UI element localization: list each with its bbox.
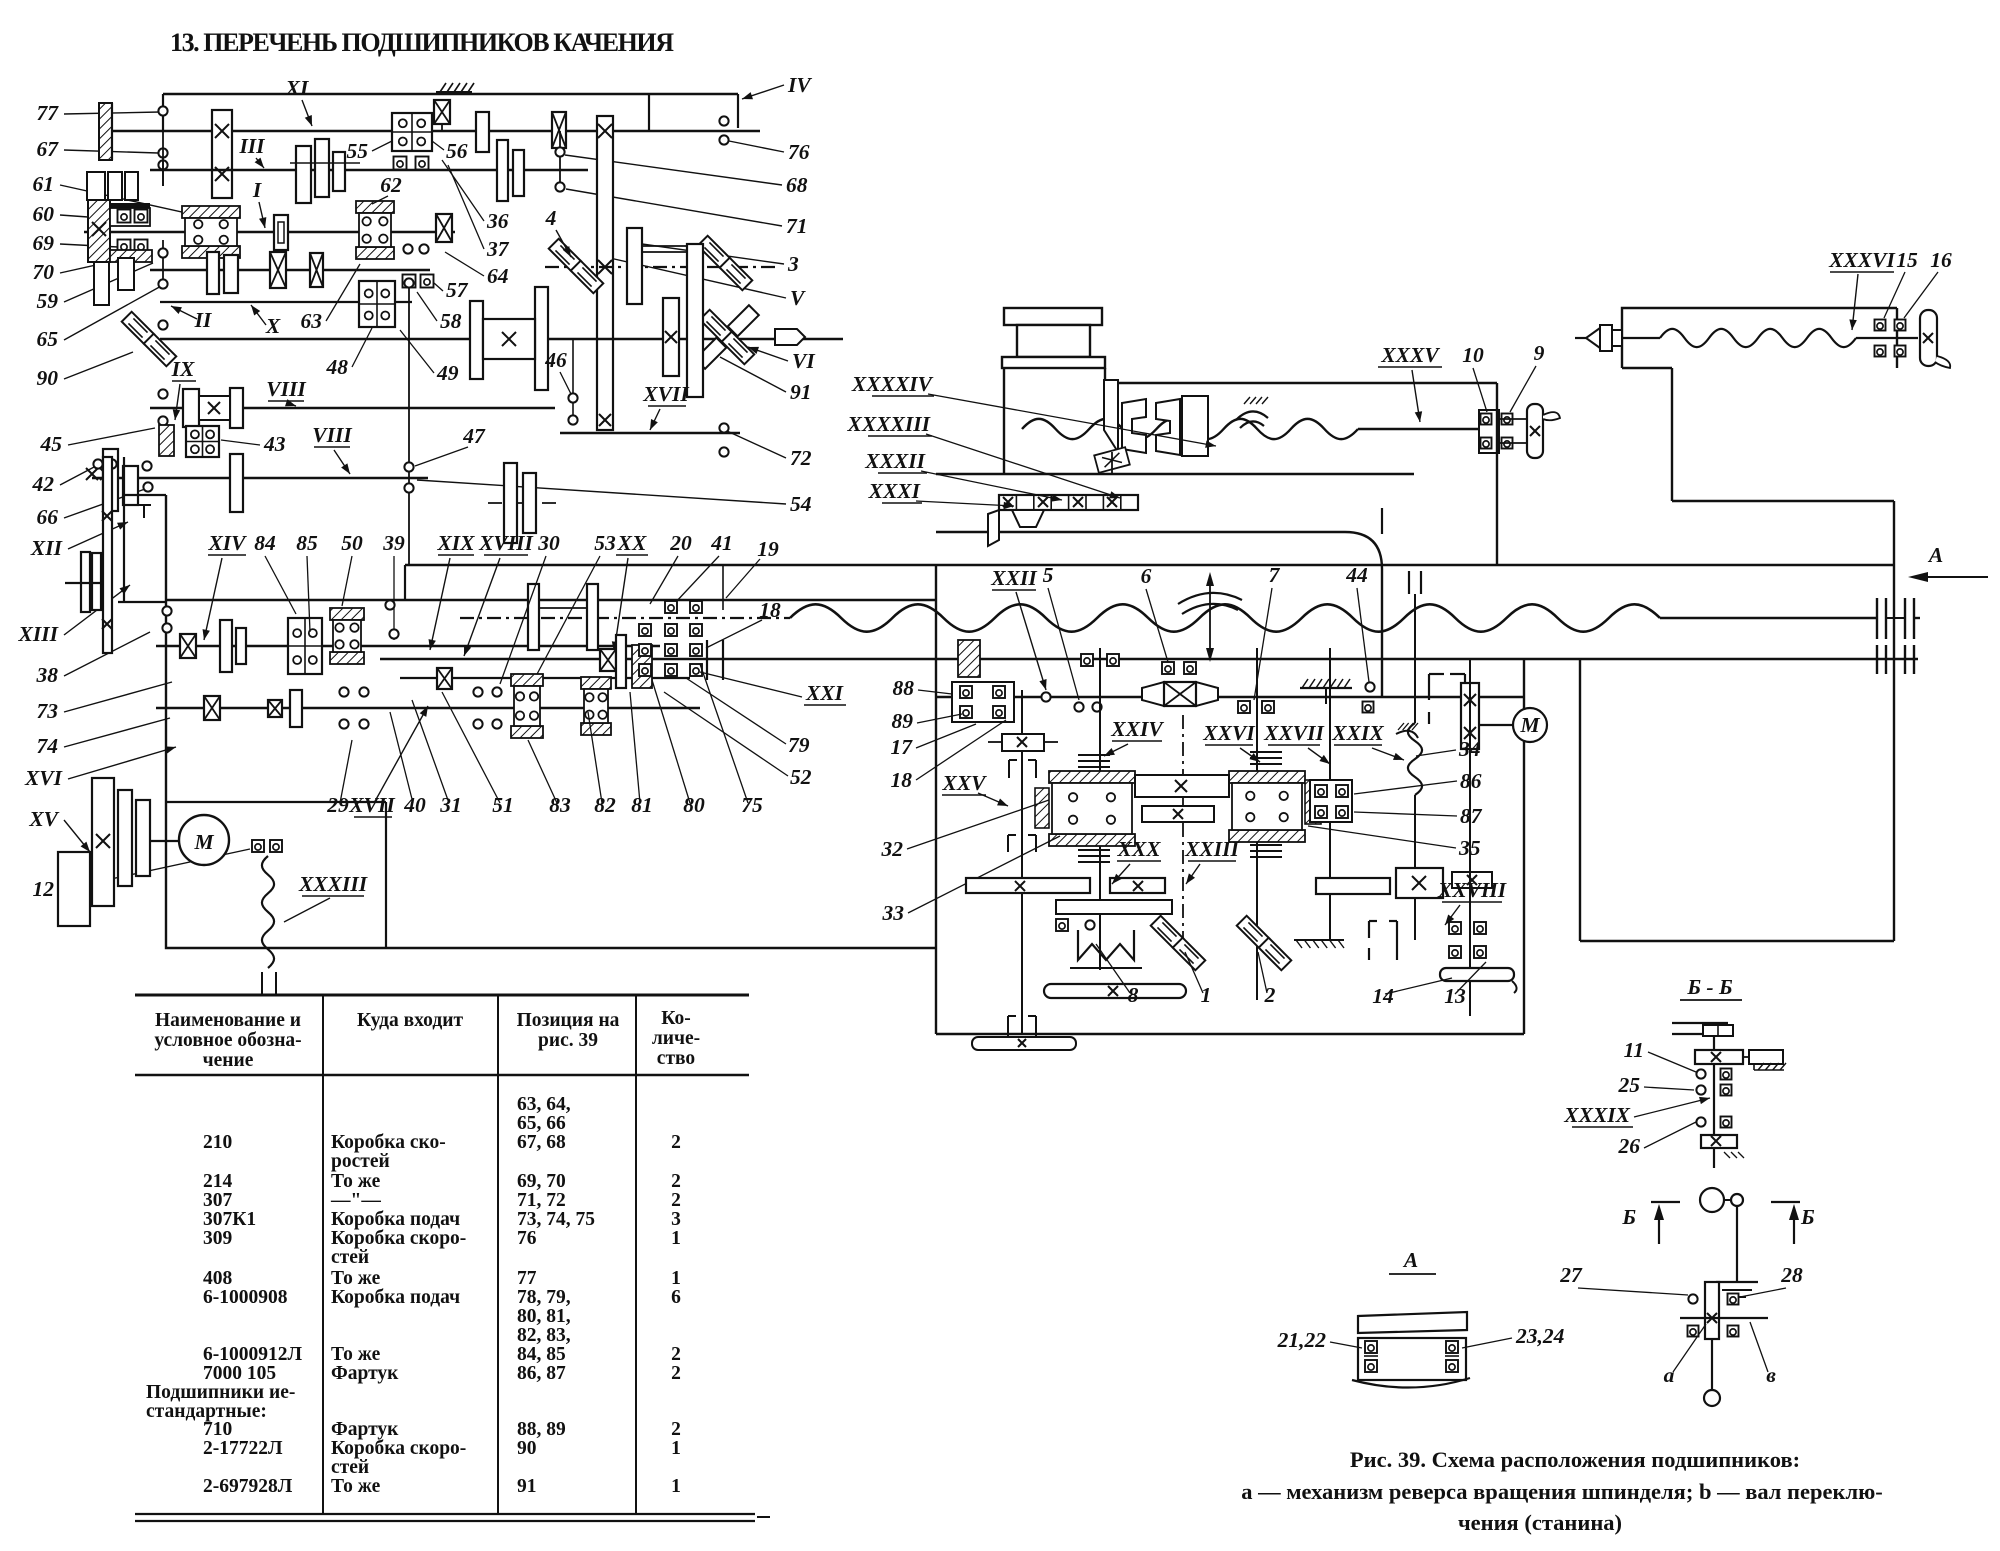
support drop on IV (648, 94, 650, 131)
svg-text:2: 2 (671, 1190, 681, 1211)
svg-text:49: 49 (436, 361, 459, 385)
svg-text:81: 81 (631, 793, 653, 817)
svg-text:72: 72 (790, 446, 812, 470)
gears on XI right (476, 112, 489, 152)
svg-text:73: 73 (37, 699, 59, 723)
svg-text:40: 40 (403, 793, 426, 817)
svg-text:Коробка подач: Коробка подач (331, 1209, 460, 1230)
svg-text:стей: стей (331, 1457, 369, 1478)
svg-text:То же: То же (331, 1268, 381, 1289)
dash section I (300, 231, 332, 233)
universal joint on V right (698, 236, 731, 269)
gear on VI (663, 298, 679, 376)
svg-text:75: 75 (741, 793, 763, 817)
svg-text:XXI: XXI (805, 681, 844, 705)
motor pulley block (92, 778, 114, 906)
svg-text:78, 79,: 78, 79, (517, 1287, 571, 1308)
svg-text:73, 74, 75: 73, 74, 75 (517, 1209, 595, 1230)
svg-text:63: 63 (301, 309, 323, 333)
table vertical 2 (497, 995, 499, 1514)
svg-text:XXIV: XXIV (1110, 717, 1164, 741)
sleeve between clusters (1135, 775, 1229, 797)
ground symbol lever (1716, 1281, 1758, 1283)
bearings 57-58 pair (403, 244, 412, 253)
svg-text:Коробка скоро-: Коробка скоро- (331, 1228, 466, 1249)
table vertical 1 (322, 995, 324, 1514)
svg-text:45: 45 (40, 432, 63, 456)
XIII gear pair (81, 552, 90, 612)
svg-text:51: 51 (492, 793, 514, 817)
leadscrew coupling (1876, 598, 1878, 639)
feed rod coupling (1876, 645, 1878, 674)
svg-text:Ко-: Ко- (661, 1008, 690, 1029)
svg-text:80: 80 (683, 793, 705, 817)
svg-text:X: X (265, 314, 281, 338)
svg-text:91: 91 (517, 1476, 537, 1497)
table bottom border (135, 1513, 755, 1515)
line above X shaft (160, 301, 412, 303)
motor M2 (1513, 708, 1547, 742)
apron 88-89 bearing unit (958, 640, 980, 677)
svg-text:25: 25 (1618, 1073, 1641, 1097)
svg-text:4: 4 (545, 206, 557, 230)
svg-text:M: M (193, 830, 214, 854)
svg-text:XXVI: XXVI (1202, 721, 1255, 745)
svg-text:Фартук: Фартук (331, 1419, 399, 1440)
universal joint on V left (549, 239, 582, 272)
X-box motor drive (1461, 683, 1479, 749)
svg-text:2: 2 (671, 1419, 681, 1440)
rack bar right (1316, 878, 1390, 894)
X-coupling gears on X (470, 301, 483, 379)
svg-text:69, 70: 69, 70 (517, 1171, 566, 1192)
bearing X-box on XI right (552, 112, 566, 148)
svg-text:VIII: VIII (266, 377, 306, 401)
saddle right edge (1496, 383, 1498, 565)
A top bar (1358, 1312, 1467, 1333)
svg-text:46: 46 (544, 348, 567, 372)
svg-text:408: 408 (203, 1268, 233, 1289)
svg-text:XIII: XIII (18, 622, 59, 646)
svg-text:36: 36 (486, 209, 509, 233)
bearings 45 (158, 389, 167, 398)
svg-text:XXXXIII: XXXXIII (847, 412, 931, 436)
svg-text:12: 12 (33, 877, 55, 901)
bed top line (405, 564, 1894, 567)
vertical shaft XIII rect (103, 457, 112, 653)
headstock gear pack (87, 172, 105, 200)
vertical x405 corner (404, 565, 406, 600)
svg-text:Коробка ско-: Коробка ско- (331, 1132, 446, 1153)
feedbox top line (166, 599, 936, 601)
vertical link x409 (408, 287, 410, 565)
svg-text:56: 56 (446, 139, 468, 163)
svg-text:XXIX: XXIX (1331, 721, 1384, 745)
svg-text:89: 89 (892, 709, 914, 733)
svg-text:55: 55 (347, 139, 369, 163)
svg-text:—"—: —"— (330, 1190, 381, 1211)
vertical shaft XXVI (1256, 648, 1258, 1000)
X-box bottom right (1396, 868, 1443, 898)
svg-text:XXVII: XXVII (1263, 721, 1324, 745)
table vertical 3 (635, 995, 637, 1514)
svg-text:То же: То же (331, 1344, 381, 1365)
bearing block on XI-III (212, 110, 232, 198)
spring curl 34 (1396, 731, 1418, 738)
svg-text:A: A (1927, 543, 1943, 567)
svg-text:XXXIII: XXXIII (298, 872, 368, 896)
svg-text:28: 28 (1780, 1263, 1803, 1287)
leadscrew wavy (790, 604, 1660, 631)
svg-text:III: III (238, 134, 265, 158)
bracket XXV upper (1008, 760, 1010, 778)
universal joint 2 (1237, 916, 1270, 949)
tailstock body (1622, 308, 1897, 368)
svg-text:44: 44 (1345, 563, 1368, 587)
ground hatch bottom (1294, 939, 1344, 941)
bearings on VIII lower (86, 468, 98, 480)
bearings on XXII (1074, 702, 1083, 711)
svg-text:То же: То же (331, 1171, 381, 1192)
svg-text:ростей: ростей (331, 1151, 390, 1172)
svg-text:15: 15 (1896, 248, 1918, 272)
switch lower rod (1711, 1339, 1713, 1390)
svg-text:65, 66: 65, 66 (517, 1113, 566, 1134)
svg-text:307: 307 (203, 1190, 233, 1211)
apron bottom (936, 1033, 1524, 1035)
bracket pair bottom (1368, 921, 1370, 938)
svg-text:307К1: 307К1 (203, 1209, 256, 1230)
svg-text:54: 54 (790, 492, 812, 516)
feedbox left box outline (166, 495, 936, 948)
svg-text:XXV: XXV (941, 771, 987, 795)
table continuation dash (757, 1516, 770, 1518)
apron left edge (935, 565, 937, 1034)
ground hatch on XXII (1300, 687, 1352, 689)
shaft XI (112, 130, 760, 133)
line to motor M2 (1479, 724, 1512, 726)
bearing block 62-63 on I (356, 201, 394, 213)
svg-text:7: 7 (1269, 563, 1281, 587)
hatch wall IX (159, 425, 174, 456)
bearing 4-block 55-56 (392, 113, 432, 151)
svg-text:76: 76 (517, 1228, 537, 1249)
svg-text:61: 61 (33, 172, 55, 196)
svg-text:2-17722Л: 2-17722Л (203, 1438, 283, 1459)
gear-coupling on IX (183, 389, 199, 427)
svg-text:83: 83 (549, 793, 571, 817)
svg-text:чения (станина): чения (станина) (1458, 1510, 1622, 1535)
svg-text:XXVIII: XXVIII (1437, 878, 1507, 902)
headstock hatched block (88, 200, 110, 262)
svg-text:6-1000912Л: 6-1000912Л (203, 1344, 302, 1365)
svg-text:ство: ство (657, 1048, 695, 1069)
svg-text:XVI: XVI (24, 766, 63, 790)
right bearing grid 20-41-19-18-79-52 (665, 601, 677, 613)
svg-text:67: 67 (37, 137, 60, 161)
bearings 46 column (572, 340, 574, 425)
lever rod (1736, 1206, 1738, 1282)
tailstock screw wavy (1622, 337, 1660, 339)
svg-text:17: 17 (891, 735, 914, 759)
svg-text:стей: стей (331, 1247, 369, 1268)
wall support left (99, 103, 112, 160)
shaft XVII-horizontal (560, 432, 740, 434)
svg-text:чение: чение (203, 1050, 254, 1071)
svg-text:7000 105: 7000 105 (203, 1363, 276, 1384)
svg-text:18: 18 (891, 768, 913, 792)
bearing 76 on IV (719, 116, 728, 125)
table top border (135, 994, 749, 997)
svg-text:6: 6 (671, 1287, 681, 1308)
bearings 68 71 stems (559, 131, 561, 190)
T-bar 14 (1440, 968, 1514, 981)
svg-text:1: 1 (671, 1228, 681, 1249)
bearings 42 (93, 459, 102, 468)
svg-text:8: 8 (1128, 983, 1139, 1007)
A body box (1358, 1338, 1466, 1380)
shaft spool 618 (460, 617, 790, 619)
bracket XXV mid (1007, 835, 1009, 852)
shaft V (545, 266, 780, 268)
shaft IX-VIII (150, 407, 555, 410)
vertical shaft XXV (1021, 690, 1023, 1034)
svg-text:82: 82 (594, 793, 616, 817)
bearings 72 54 on XVII (719, 423, 728, 432)
svg-text:27: 27 (1559, 1263, 1583, 1287)
svg-text:82, 83,: 82, 83, (517, 1325, 571, 1346)
svg-text:XIV: XIV (207, 531, 247, 555)
svg-text:214: 214 (203, 1171, 233, 1192)
svg-text:Позиция на: Позиция на (517, 1010, 620, 1031)
svg-text:Куда входит: Куда входит (357, 1010, 463, 1031)
svg-text:66: 66 (37, 505, 59, 529)
tailstock quill (1575, 337, 1588, 339)
A bearings 21-24 (1365, 1341, 1377, 1353)
svg-text:XXXII: XXXII (864, 449, 925, 473)
svg-text:a: a (1664, 1363, 1675, 1387)
bed right edge (1893, 501, 1895, 941)
svg-text:A: A (1402, 1248, 1418, 1272)
svg-text:1: 1 (671, 1268, 681, 1289)
switch bearings 27 28 (1688, 1294, 1697, 1303)
hatched block 50 (330, 608, 364, 620)
svg-text:То же: То же (331, 1476, 381, 1497)
B-B X-box top (1695, 1050, 1743, 1064)
bearing X-box I right (436, 214, 452, 242)
A bottom arc (1352, 1378, 1470, 1388)
big X joint on VI (700, 310, 733, 343)
gear small on I (274, 215, 288, 250)
svg-text:85: 85 (296, 531, 318, 555)
B-B side piece (1749, 1050, 1783, 1064)
svg-text:23,24: 23,24 (1515, 1324, 1565, 1348)
headstock lower rects (94, 262, 109, 305)
bearings 59 65 column (162, 240, 164, 285)
universal joint 1 (1151, 916, 1184, 949)
rotation arrows at 1210 (1209, 578, 1211, 655)
svg-text:XVII: XVII (348, 793, 395, 817)
svg-text:3: 3 (671, 1209, 681, 1230)
svg-text:76: 76 (788, 140, 810, 164)
table header separator (135, 1074, 749, 1077)
gears on II (270, 252, 286, 288)
reversing frame (123, 457, 125, 602)
svg-text:Наименование и: Наименование и (155, 1010, 301, 1031)
bearing squares 13 (1449, 922, 1461, 934)
gears on V (627, 228, 642, 304)
switch shaft b rect (1705, 1282, 1719, 1339)
bearing 77 (158, 106, 167, 115)
gears on III right (497, 140, 508, 201)
spool gears (528, 584, 539, 650)
svg-text:2: 2 (671, 1171, 681, 1192)
svg-text:XX: XX (617, 531, 647, 555)
svg-text:XXXV: XXXV (1380, 343, 1440, 367)
svg-text:Фартук: Фартук (331, 1363, 399, 1384)
svg-text:63, 64,: 63, 64, (517, 1094, 571, 1115)
bearing 44 (1365, 682, 1374, 691)
B-B shaft vertical (1713, 1036, 1715, 1135)
break marks x1410 (1408, 571, 1410, 594)
svg-text:2: 2 (671, 1363, 681, 1384)
svg-text:79: 79 (788, 733, 810, 757)
svg-text:XXXXIV: XXXXIV (851, 372, 934, 396)
svg-text:69: 69 (33, 231, 55, 255)
bearing X on XIV (180, 634, 196, 658)
svg-text:условное обозна-: условное обозна- (154, 1030, 301, 1051)
svg-text:77: 77 (37, 101, 60, 125)
svg-text:31: 31 (439, 793, 462, 817)
bearings 67 on XI (158, 148, 167, 157)
thrust strip XXXI-XXXIV (999, 495, 1138, 510)
shaft to motor (150, 840, 180, 842)
svg-text:90: 90 (517, 1438, 537, 1459)
universal joint X left (122, 312, 155, 345)
vertical shaft XXIII dashed (1182, 715, 1184, 940)
bracket pair right (1428, 674, 1430, 700)
svg-text:II: II (194, 308, 212, 332)
teeth stack right (1250, 751, 1282, 753)
svg-text:710: 710 (203, 1419, 232, 1440)
shaft I (84, 231, 455, 234)
svg-text:Б - Б: Б - Б (1686, 975, 1733, 999)
shaft VIII lower (92, 477, 428, 480)
svg-text:M: M (1519, 713, 1540, 737)
bearing 66 (143, 482, 152, 491)
svg-text:16: 16 (1930, 248, 1952, 272)
svg-text:86, 87: 86, 87 (517, 1363, 566, 1384)
ratchet arcs (1236, 411, 1268, 420)
gear tall right (687, 244, 703, 397)
svg-text:210: 210 (203, 1132, 232, 1153)
headstock bearings 60 69 (118, 210, 131, 223)
gear pair lower right (488, 502, 560, 504)
svg-text:88: 88 (893, 676, 915, 700)
svg-text:Коробка скоро-: Коробка скоро- (331, 1438, 466, 1459)
svg-text:18: 18 (759, 598, 781, 622)
bearing on X left (158, 320, 167, 329)
lever knob circles (1700, 1188, 1724, 1212)
rack bar mid (1110, 878, 1165, 893)
svg-text:41: 41 (710, 531, 733, 555)
svg-text:48: 48 (326, 355, 349, 379)
gear cluster left (32/33) (1049, 771, 1135, 783)
svg-text:XVII: XVII (642, 382, 689, 406)
clutch block on I (182, 206, 240, 218)
svg-text:Рис. 39. Схема расположения по: Рис. 39. Схема расположения подшипников: (1350, 1447, 1800, 1472)
svg-text:Б: Б (1800, 1205, 1815, 1229)
svg-text:XXXI: XXXI (868, 479, 921, 503)
svg-text:VIII: VIII (312, 423, 352, 447)
svg-text:62: 62 (380, 173, 402, 197)
svg-text:XVIII: XVIII (478, 531, 533, 555)
worm X-box on XXII (1142, 682, 1164, 706)
shaft XIV (156, 645, 660, 648)
saddle top line (1105, 382, 1497, 384)
apron main shaft XXII (936, 696, 1524, 698)
svg-text:6-1000908: 6-1000908 (203, 1287, 288, 1308)
shaft IV (163, 93, 738, 96)
svg-text:1: 1 (1201, 983, 1212, 1007)
saddle inner line 474 (936, 473, 1414, 475)
svg-text:33: 33 (882, 901, 905, 925)
right big box (1579, 658, 1581, 941)
shaft 678 (400, 677, 690, 679)
bracket XXV low (1007, 1016, 1009, 1036)
svg-text:5: 5 (1043, 563, 1054, 587)
tailstock handwheel (1920, 310, 1937, 366)
bearings 86 87 block (1310, 780, 1352, 822)
switch shaft cross line (1680, 1317, 1768, 1319)
tailstock bearings 15 16 (1875, 320, 1886, 331)
sliding block XVII vertical (597, 116, 613, 430)
teeth stack left (1078, 754, 1110, 756)
svg-text:87: 87 (1460, 804, 1483, 828)
svg-text:XXIII: XXIII (1184, 837, 1239, 861)
svg-text:XV: XV (28, 807, 59, 831)
jaw clutch 8 assembly (1056, 900, 1172, 914)
bearings 61-67 column (162, 131, 164, 186)
svg-text:68: 68 (786, 173, 808, 197)
svg-text:43: 43 (263, 432, 286, 456)
svg-text:XXXVI: XXXVI (1828, 248, 1895, 272)
vertical shaft XXXIII (262, 856, 274, 968)
svg-text:38: 38 (36, 663, 59, 687)
svg-text:рис. 39: рис. 39 (538, 1030, 598, 1051)
svg-text:84, 85: 84, 85 (517, 1344, 566, 1365)
vertical shaft XXIX (1414, 594, 1416, 723)
gear cluster right (35) (1229, 771, 1305, 783)
svg-text:60: 60 (33, 202, 55, 226)
svg-text:70: 70 (33, 260, 55, 284)
svg-text:64: 64 (487, 264, 509, 288)
svg-text:84: 84 (254, 531, 276, 555)
bearings under 55-56 (394, 157, 407, 170)
svg-text:V: V (790, 286, 806, 310)
svg-text:59: 59 (37, 289, 59, 313)
apron right edge (1523, 660, 1525, 1034)
svg-text:13: 13 (1444, 984, 1466, 1008)
tailstock base (1671, 368, 1673, 501)
svg-text:20: 20 (669, 531, 692, 555)
shaft bottom 708 (156, 707, 700, 710)
svg-text:47: 47 (462, 424, 486, 448)
gears on VIII lower (103, 449, 118, 511)
gears on XIV (220, 620, 232, 672)
svg-text:37: 37 (486, 237, 510, 261)
svg-text:77: 77 (517, 1268, 537, 1289)
